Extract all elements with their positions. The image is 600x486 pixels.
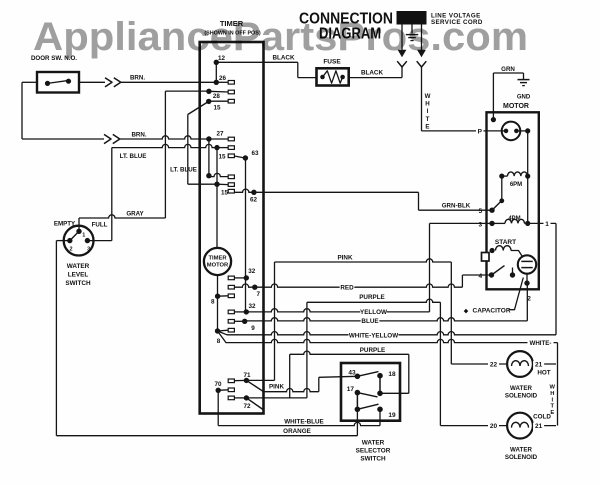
svg-text:2: 2 (527, 296, 531, 303)
wire riser x165 (28 to GRAY) (164, 91, 166, 218)
svg-text:SELECTOR: SELECTOR (356, 447, 391, 454)
svg-text:72: 72 (243, 403, 251, 410)
motor protector circle (502, 122, 521, 141)
wire PURPLE (upper): 72 to cold solenoid 20 (306, 302, 308, 398)
wire GRN to ground (491, 117, 496, 122)
wire water level 3 riser (lt blue) (87, 240, 111, 242)
svg-text:MOTOR: MOTOR (503, 103, 529, 110)
wire ORANGE: water level 2 to selector (56, 240, 69, 242)
wire RED: timer 7 to motor 4 (255, 284, 463, 287)
svg-text:AppliancePartsPros.com: AppliancePartsPros.com (33, 15, 528, 59)
svg-text:COLD: COLD (533, 413, 551, 420)
svg-text:9: 9 (251, 325, 255, 332)
timer terminal 7 (252, 285, 257, 290)
wire WHITE-YELLOW: timer 8 to motor 1 (218, 331, 235, 335)
svg-text:ORANGE: ORANGE (283, 428, 311, 435)
wire BRN: door switch to timer 26 (79, 81, 105, 83)
selector blades (357, 372, 378, 377)
service cord ground lead (411, 25, 413, 34)
svg-text:E: E (550, 410, 554, 416)
switch blade 15 to outside riser (188, 101, 209, 114)
svg-text:RED: RED (340, 285, 354, 292)
motor terminal 2 (526, 274, 528, 283)
wire motor 1 riser (555, 223, 557, 334)
svg-text:FULL: FULL (92, 222, 108, 229)
timer terminal 28 (206, 89, 211, 94)
svg-text:28: 28 (213, 93, 221, 100)
svg-text:LEVEL: LEVEL (68, 272, 89, 279)
motor speed switch (501, 176, 503, 201)
svg-text:GRN-BLK: GRN-BLK (442, 203, 471, 210)
cold water solenoid L2 (507, 413, 533, 439)
svg-text:SOLENOID: SOLENOID (505, 392, 538, 399)
wire 28 to gray riser (165, 90, 209, 92)
svg-text:20: 20 (490, 423, 498, 430)
motor terminal 5 (489, 208, 494, 213)
wire service-cord to fuse (349, 77, 402, 79)
svg-text:W: W (425, 93, 431, 100)
svg-text:GRAY: GRAY (126, 211, 144, 218)
wire PINK riser: 71 up to pink bus (246, 379, 274, 381)
svg-text:17: 17 (347, 386, 355, 393)
wire WHITE-BLUE: 70 to selector 19 (217, 390, 219, 425)
wire PINK (lower): 71 blade to selector 43 (264, 389, 319, 392)
svg-text:26: 26 (219, 75, 227, 82)
svg-text:SOLENOID: SOLENOID (505, 454, 538, 461)
svg-text:62: 62 (250, 196, 258, 203)
fuse F1 (317, 68, 349, 85)
wire GRAY: water level 1 to timer 28 riser (78, 218, 80, 231)
svg-text:T: T (426, 116, 430, 123)
svg-text:15: 15 (213, 105, 221, 112)
svg-text:SWITCH: SWITCH (65, 280, 91, 287)
wire timer motor down (217, 275, 219, 331)
svg-text:E: E (425, 123, 429, 130)
start winding tab (482, 253, 490, 262)
wire PINK: to hot solenoid 22 (275, 259, 452, 262)
svg-text:BRN.: BRN. (131, 131, 146, 138)
svg-text:WATER: WATER (510, 385, 532, 392)
wire BRN: to timer 27 (104, 134, 111, 143)
svg-text:LT. BLUE: LT. BLUE (170, 167, 197, 174)
svg-text:WHITE-: WHITE- (530, 340, 552, 347)
svg-text:2: 2 (69, 247, 72, 253)
svg-text:T: T (551, 404, 555, 410)
svg-text:PURPLE: PURPLE (360, 347, 386, 354)
svg-text:15: 15 (218, 154, 226, 161)
vertical 27 ladder (208, 139, 210, 176)
wire 62 to motor 5 (GRN-BLK) (234, 189, 418, 192)
motor right bus (527, 131, 529, 224)
capacitor circle (518, 255, 536, 273)
svg-text:70: 70 (214, 381, 222, 388)
svg-text:3: 3 (87, 247, 90, 253)
svg-text:PINK: PINK (269, 384, 284, 391)
svg-text:WHITE-YELLOW: WHITE-YELLOW (349, 332, 398, 339)
timer terminal 72 (244, 395, 249, 400)
wire door switch left loop (22, 81, 37, 83)
timer contact row lt-blue (214, 145, 219, 150)
wire fuse to timer 12 (BLACK) (298, 77, 317, 79)
timer motor M1 (204, 248, 231, 275)
water selector switch S3 (341, 363, 400, 421)
timer box (200, 42, 264, 414)
svg-text:SWITCH: SWITCH (360, 455, 386, 462)
svg-text:W: W (550, 385, 556, 391)
svg-text:MOTOR: MOTOR (207, 263, 229, 269)
wire YELLOW: timer 32 to motor 3 (246, 309, 429, 312)
svg-text:BLACK: BLACK (361, 69, 383, 76)
svg-text:WATER: WATER (67, 263, 90, 270)
svg-text:WATER: WATER (510, 447, 532, 454)
svg-text:WATER: WATER (362, 439, 385, 446)
svg-text:H: H (425, 101, 430, 108)
svg-text:8: 8 (217, 338, 221, 345)
wire 72 to purple risers (246, 397, 307, 399)
timer terminal 8 (upper) (215, 294, 220, 299)
svg-text:27: 27 (216, 130, 224, 137)
svg-text:H: H (550, 391, 554, 397)
motor terminal 4 / start switch (489, 272, 494, 277)
svg-text:CAPACITOR: CAPACITOR (473, 307, 511, 314)
wire BLUE: timer 9 to capacitor 2 (245, 318, 528, 321)
svg-text:PINK: PINK (337, 255, 352, 262)
ground symbol GND (523, 73, 525, 79)
wire riser x188 (15 blade down) (187, 115, 189, 185)
svg-text:I: I (427, 108, 429, 115)
svg-text:15: 15 (221, 189, 229, 196)
svg-text:1: 1 (545, 221, 549, 228)
svg-text:PURPLE: PURPLE (359, 294, 385, 301)
svg-text:19: 19 (388, 412, 396, 419)
svg-text:BRN.: BRN. (130, 74, 145, 81)
motor box (487, 112, 539, 289)
svg-text:◆: ◆ (463, 307, 469, 314)
svg-text:FUSE: FUSE (323, 59, 341, 66)
wire WHITE: service cord to motor P (421, 67, 423, 131)
svg-text:P: P (478, 128, 483, 135)
wire LT. BLUE: water level 3 to timer (112, 144, 217, 147)
svg-text:5: 5 (478, 208, 482, 215)
svg-text:EMPTY: EMPTY (54, 220, 76, 227)
svg-text:GND: GND (517, 95, 531, 101)
service cord right lead (white) (421, 25, 423, 51)
svg-text:WHITE-BLUE: WHITE-BLUE (284, 418, 324, 425)
wire PURPLE (lower): 72 to selector (289, 354, 291, 398)
svg-text:18: 18 (388, 371, 396, 378)
svg-text:TIMER: TIMER (208, 255, 227, 261)
svg-text:32: 32 (248, 303, 256, 310)
svg-text:21: 21 (535, 423, 543, 430)
svg-text:START: START (495, 239, 516, 246)
motor terminal 1 (528, 222, 556, 224)
water level switch S2 (64, 226, 94, 256)
svg-text:1: 1 (82, 233, 85, 239)
svg-text:21: 21 (535, 361, 543, 368)
svg-text:GRN: GRN (501, 66, 515, 73)
wire to terminal 63 (234, 156, 245, 158)
service cord left lead (black) (401, 25, 403, 51)
switch blade 72 (246, 398, 263, 410)
svg-text:7: 7 (257, 291, 261, 298)
hot water solenoid L1 (507, 351, 533, 377)
svg-text:63: 63 (251, 150, 259, 157)
svg-text:3: 3 (478, 222, 482, 229)
timer terminal 9 (242, 319, 247, 324)
vertical 63-32-32 (245, 158, 247, 312)
timer terminal 8 (lower) (215, 328, 220, 333)
motor 6PM winding (499, 174, 504, 179)
line voltage service cord (black block) (397, 11, 427, 25)
svg-text:8: 8 (211, 298, 215, 305)
timer terminal 15 (upper) (206, 99, 211, 104)
switch blade 71 (246, 380, 263, 391)
svg-text:LT. BLUE: LT. BLUE (120, 153, 147, 160)
svg-text:BLUE: BLUE (361, 318, 378, 325)
svg-text:32: 32 (248, 268, 256, 275)
svg-text:HOT: HOT (537, 369, 550, 376)
svg-text:6PM: 6PM (510, 182, 522, 188)
motor terminal 3 / 4PM winding (489, 221, 494, 226)
wire WHITE: timer 8 to solenoids 21 (218, 331, 235, 343)
svg-text:22: 22 (490, 361, 498, 368)
svg-text:YELLOW: YELLOW (360, 309, 387, 316)
svg-text:4: 4 (478, 273, 482, 280)
